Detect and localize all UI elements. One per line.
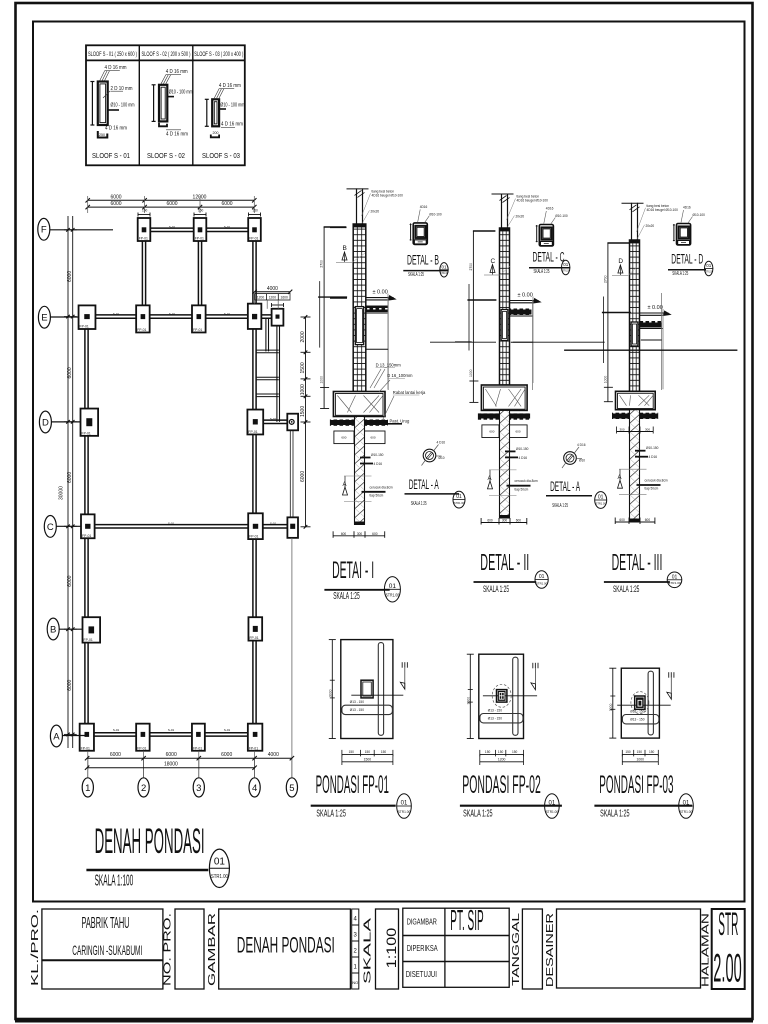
svg-text:DESAINER: DESAINER (545, 913, 556, 987)
svg-text:01: 01 (563, 262, 569, 267)
pondasi plan PONDASI FP-03 (612, 668, 614, 738)
svg-text:STR1.00: STR1.00 (546, 810, 558, 814)
svg-text:FP-01: FP-01 (249, 636, 258, 640)
svg-text:1:100: 1:100 (383, 928, 399, 969)
svg-text:STR1.00: STR1.00 (386, 592, 400, 597)
svg-text:F: F (41, 225, 47, 236)
svg-text:D 13_150mm: D 13_150mm (376, 363, 402, 368)
page number box STR 2.00 (712, 909, 745, 989)
svg-text:A: A (488, 476, 492, 482)
svg-text:tiap 50cm: tiap 50cm (370, 494, 384, 498)
plan: horizontal beams (144, 227, 257, 229)
svg-text:Past. Urug: Past. Urug (390, 419, 410, 424)
svg-text:cerucuk dia.8cm: cerucuk dia.8cm (370, 485, 394, 489)
grid bubble F (38, 218, 50, 240)
svg-text:Ø10-100: Ø10-100 (555, 214, 568, 218)
svg-text:01: 01 (456, 494, 462, 500)
svg-text:SKALA 1:25: SKALA 1:25 (613, 584, 639, 595)
svg-text:1500: 1500 (300, 362, 306, 373)
top dimension chain (88, 199, 255, 201)
detail A circle symbol (564, 452, 577, 465)
svg-text:4D16: 4D16 (420, 205, 428, 209)
svg-text:600: 600 (487, 519, 493, 523)
svg-text:250: 250 (99, 133, 105, 137)
svg-text:S-01: S-01 (169, 225, 176, 229)
svg-text:FP-01: FP-01 (249, 535, 258, 539)
svg-text:20x20: 20x20 (516, 215, 525, 219)
svg-text:FP-01: FP-01 (80, 325, 89, 329)
grid bubble 5 (286, 778, 297, 797)
svg-text:4 D16: 4 D16 (649, 455, 658, 459)
svg-text:2.00: 2.00 (713, 947, 741, 991)
svg-text:600: 600 (619, 518, 625, 522)
svg-text:150: 150 (625, 750, 631, 754)
grid bubble 3 (193, 778, 204, 797)
svg-text:01: 01 (441, 264, 447, 269)
svg-text:150: 150 (485, 750, 491, 754)
column footing at (91.3,629.9) (83, 617, 101, 642)
sloof section sketch at 159,84.8 (159, 85, 167, 122)
column footing at (89.3,422.2) (81, 409, 99, 436)
svg-text:± 0.00: ± 0.00 (373, 290, 388, 296)
svg-text:S-01: S-01 (224, 728, 231, 732)
grid bubble 2 (138, 778, 149, 797)
svg-text:SKALA: SKALA (363, 917, 374, 984)
svg-text:1000: 1000 (320, 376, 324, 384)
svg-text:3000: 3000 (466, 697, 470, 705)
column footing at (292.7,422) (287, 414, 298, 431)
svg-text:6000: 6000 (166, 201, 177, 207)
svg-text:4 D16: 4 D16 (374, 462, 383, 466)
svg-text:2000: 2000 (300, 331, 306, 342)
svg-text:S-01: S-01 (224, 312, 231, 316)
svg-text:600: 600 (372, 532, 378, 536)
column footing at (144.0,229.5) (138, 218, 151, 241)
detail section at x=359.5 (356, 188, 358, 224)
svg-text:6000: 6000 (67, 679, 73, 690)
pondasi plan PONDASI FP-02 (469, 654, 471, 738)
svg-text:6000: 6000 (67, 271, 73, 282)
svg-text:FP-01: FP-01 (82, 534, 91, 538)
svg-text:STR1.00: STR1.00 (705, 269, 713, 273)
svg-text:SLOOF S - 02: SLOOF S - 02 (147, 153, 185, 160)
svg-text:PONDASI FP-03: PONDASI FP-03 (599, 771, 673, 799)
svg-text:01: 01 (598, 495, 604, 501)
grid bubble C (44, 516, 56, 538)
svg-text:C: C (491, 258, 496, 265)
svg-text:2700: 2700 (320, 260, 324, 268)
svg-text:150: 150 (198, 209, 204, 213)
inner border frame (33, 22, 745, 902)
svg-text:01: 01 (683, 801, 690, 807)
column footing at (142.9,737.2) (136, 724, 150, 751)
sloof detail table (86, 45, 245, 165)
svg-text:PONDASI FP-02: PONDASI FP-02 (462, 771, 541, 799)
svg-text:1000: 1000 (603, 376, 607, 384)
svg-text:600: 600 (371, 436, 376, 440)
svg-text:600: 600 (516, 519, 522, 523)
svg-text:4 D 16 mm: 4 D 16 mm (221, 121, 243, 127)
svg-text:30000: 30000 (59, 486, 65, 500)
svg-text:4 D 16 mm: 4 D 16 mm (219, 83, 241, 89)
svg-text:150: 150 (253, 209, 259, 213)
svg-text:1: 1 (85, 783, 90, 794)
detail section at x=634.5 (631, 203, 633, 240)
svg-text:1000: 1000 (637, 758, 645, 762)
svg-text:4 D16: 4 D16 (519, 456, 528, 460)
column footing at (254.6,316.3) (248, 304, 262, 329)
svg-text:D: D (618, 258, 623, 265)
column footing at (200.0,229.5) (194, 218, 207, 241)
svg-text:FP-01: FP-01 (81, 746, 90, 750)
svg-text:STR1.00: STR1.00 (440, 271, 448, 275)
svg-text:STR: STR (718, 906, 738, 942)
svg-text:5: 5 (289, 783, 294, 794)
svg-text:DETAI - I: DETAI - I (332, 557, 374, 584)
long reference lines (430, 341, 496, 343)
svg-text:tiap 50cm: tiap 50cm (645, 487, 659, 491)
svg-text:CARINGIN -SUKABUMI: CARINGIN -SUKABUMI (72, 943, 142, 958)
column footing at (255.5,526.2) (248, 513, 263, 539)
column footing at (142.9,318.9) (136, 305, 150, 332)
svg-text:FP-01: FP-01 (193, 746, 202, 750)
svg-text:SKALA 1:25: SKALA 1:25 (600, 807, 630, 819)
svg-text:Ø10-150: Ø10-150 (646, 446, 659, 450)
svg-text:1600: 1600 (281, 296, 289, 300)
svg-text:STR1.00: STR1.00 (668, 581, 681, 585)
svg-text:300: 300 (502, 519, 508, 523)
svg-text:S-01: S-01 (113, 728, 120, 732)
svg-text:C: C (47, 522, 54, 533)
svg-text:3000: 3000 (609, 703, 613, 711)
column footing at (87.8,526.3) (81, 514, 95, 538)
bottom dimension chains (87, 757, 292, 759)
svg-text:S-01: S-01 (270, 417, 277, 421)
svg-text:4 D16: 4 D16 (437, 441, 446, 445)
svg-text:1500: 1500 (300, 406, 306, 417)
svg-text:600: 600 (341, 436, 346, 440)
svg-text:FP-01: FP-01 (193, 328, 202, 332)
svg-text:DETAL - D: DETAL - D (671, 252, 703, 267)
svg-text:Ø10-150: Ø10-150 (371, 453, 384, 457)
column footing at (86.8,737.2) (80, 724, 94, 751)
svg-text:20x20: 20x20 (646, 224, 655, 228)
svg-text:4D16: 4D16 (546, 207, 554, 211)
svg-text:GAMBAR: GAMBAR (207, 913, 218, 986)
svg-text:Ø13 - 150: Ø13 - 150 (488, 717, 502, 721)
svg-text:150: 150 (498, 750, 504, 754)
column footing at (198.4,737.2) (192, 724, 205, 751)
svg-text:01: 01 (706, 263, 712, 268)
svg-text:SKALA 1:25: SKALA 1:25 (534, 269, 550, 275)
svg-text:1200: 1200 (269, 296, 277, 300)
svg-text:Ø10-100: Ø10-100 (693, 213, 706, 217)
grid bubble 4 (249, 778, 260, 797)
svg-text:DIPERIKSA: DIPERIKSA (407, 944, 438, 953)
svg-text:01: 01 (401, 801, 408, 807)
svg-text:SLOOF S - 01 ( 250 x 600 ): SLOOF S - 01 ( 250 x 600 ) (88, 52, 137, 58)
svg-text:A: A (53, 731, 60, 742)
column footing at (254.5,229.5) (248, 218, 261, 241)
svg-text:DETAL - A: DETAL - A (550, 479, 580, 494)
svg-text:DISETUJUI: DISETUJUI (406, 970, 437, 979)
top-right 4000 dimension (255, 291, 291, 293)
svg-text:SKALA 1:25: SKALA 1:25 (411, 501, 427, 507)
project name box (42, 909, 163, 989)
svg-text:DETAL - III: DETAL - III (612, 549, 663, 575)
svg-text:S-01: S-01 (224, 225, 231, 229)
svg-text:4000: 4000 (267, 286, 278, 292)
grid bubble B (47, 618, 59, 640)
pondasi plan PONDASI FP-01 (331, 640, 333, 739)
svg-text:DENAH PONDASI: DENAH PONDASI (95, 822, 205, 861)
svg-text:1200: 1200 (498, 758, 506, 762)
svg-text:FP-01: FP-01 (137, 746, 146, 750)
svg-text:18000: 18000 (164, 762, 178, 768)
column footing at (255.3,422) (247, 410, 263, 435)
grid bubble E (38, 306, 50, 328)
svg-text:6000: 6000 (67, 367, 73, 378)
detail section at x=504.5 (501, 194, 503, 229)
svg-text:SKALA 1:25: SKALA 1:25 (463, 807, 493, 819)
svg-text:FP-01: FP-01 (139, 237, 148, 241)
right dimension chain (305, 317, 307, 527)
svg-text:4D16: 4D16 (683, 206, 691, 210)
svg-text:4000: 4000 (268, 752, 279, 758)
svg-text:1500: 1500 (364, 758, 372, 762)
svg-text:150: 150 (365, 750, 371, 754)
svg-text:FP-01: FP-01 (249, 237, 258, 241)
svg-text:6000: 6000 (67, 575, 73, 586)
svg-text:01: 01 (214, 857, 226, 868)
svg-text:600: 600 (341, 532, 347, 536)
svg-text:Ø10: Ø10 (439, 456, 445, 460)
svg-text:01: 01 (672, 574, 678, 580)
mini detail icon DETAL - B (413, 223, 427, 245)
svg-text:12000: 12000 (193, 194, 207, 200)
detail A circle symbol (423, 449, 436, 462)
desainer box (557, 909, 701, 988)
column footing at (255.1,737.2) (248, 724, 263, 751)
svg-text:FP-01: FP-01 (82, 431, 91, 435)
svg-text:20x20: 20x20 (371, 209, 380, 213)
svg-text:D: D (42, 417, 49, 428)
svg-text:6000: 6000 (166, 752, 177, 758)
svg-text:HALAMAN: HALAMAN (701, 913, 712, 987)
svg-text:200: 200 (213, 131, 219, 135)
svg-text:STR1.00: STR1.00 (562, 268, 570, 272)
svg-text:4 D 16 mm: 4 D 16 mm (166, 69, 188, 75)
left dimension chains (67, 216, 69, 748)
svg-text:SLOOF S - 02 ( 200 x 500 ): SLOOF S - 02 ( 200 x 500 ) (142, 52, 191, 58)
svg-text:DIGAMBAR: DIGAMBAR (407, 918, 437, 927)
svg-text:DETAL - B: DETAL - B (407, 252, 439, 267)
svg-text:DENAH PONDASI: DENAH PONDASI (237, 932, 335, 957)
svg-text:600: 600 (489, 429, 494, 433)
plan: axis beams (84, 317, 86, 737)
svg-text:NO: NO (352, 980, 358, 985)
svg-text:300: 300 (645, 427, 650, 431)
svg-text:4: 4 (252, 783, 257, 794)
svg-text:STR1.00: STR1.00 (211, 874, 228, 880)
svg-text:D 16_100mm: D 16_100mm (387, 373, 413, 378)
svg-text:STR1.00: STR1.00 (536, 581, 548, 585)
svg-text:NO. PRO.: NO. PRO. (163, 913, 174, 986)
svg-text:600: 600 (516, 429, 521, 433)
svg-text:SLOOF S - 01: SLOOF S - 01 (92, 153, 130, 160)
svg-text:01: 01 (389, 583, 397, 590)
sloof section sketch at 212.2,99.3 (212, 99, 219, 126)
svg-text:E: E (41, 313, 47, 324)
svg-text:4 D 16 mm: 4 D 16 mm (166, 131, 188, 137)
svg-text:6000: 6000 (110, 752, 121, 758)
svg-text:PABRIK TAHU: PABRIK TAHU (82, 915, 130, 932)
mini detail icon DETAL - D (677, 224, 691, 246)
column footing at (198.8,318.9) (192, 305, 206, 332)
svg-text:SKALA 1:25: SKALA 1:25 (333, 591, 360, 602)
svg-text:STR1.00: STR1.00 (454, 501, 464, 505)
svg-text:4 D 16 mm: 4 D 16 mm (105, 126, 127, 132)
svg-text:6000: 6000 (110, 201, 121, 207)
svg-text:Ø13 - 150: Ø13 - 150 (350, 700, 364, 704)
svg-text:PT. SIP: PT. SIP (450, 905, 483, 937)
svg-text:150: 150 (649, 750, 655, 754)
svg-text:A: A (343, 482, 347, 488)
svg-text:2700: 2700 (603, 275, 607, 283)
svg-text:150: 150 (349, 750, 355, 754)
svg-text:STR1.00: STR1.00 (680, 810, 692, 814)
svg-text:DETAL - A: DETAL - A (409, 477, 439, 492)
svg-text:6000: 6000 (67, 472, 73, 483)
svg-text:6000: 6000 (221, 752, 232, 758)
svg-text:S-01: S-01 (169, 312, 176, 316)
svg-text:cerucuk dia.8cm: cerucuk dia.8cm (645, 479, 669, 483)
svg-text:SKALA 1:25: SKALA 1:25 (552, 503, 568, 509)
svg-text:6000: 6000 (110, 194, 121, 200)
svg-text:TANGGAL: TANGGAL (511, 912, 522, 986)
svg-text:Ø10 - 100 mm: Ø10 - 100 mm (169, 90, 193, 96)
svg-text:SLOOF S - 03 ( 200 x 400 ): SLOOF S - 03 ( 200 x 400 ) (194, 52, 243, 58)
svg-text:Ø13 - 150: Ø13 - 150 (350, 708, 364, 712)
svg-text:FP-01: FP-01 (249, 746, 258, 750)
svg-text:01: 01 (539, 574, 545, 580)
revision number boxes (352, 909, 359, 989)
svg-text:4D16 beugel Ø10-100: 4D16 beugel Ø10-100 (517, 199, 549, 203)
svg-text:S-01: S-01 (168, 728, 175, 732)
svg-text:01: 01 (549, 801, 556, 807)
svg-text:STR1.00: STR1.00 (596, 502, 606, 506)
ladder rungs between axis4 and rail (257, 349, 279, 351)
svg-text:2700: 2700 (469, 263, 473, 271)
svg-text:6000: 6000 (221, 201, 232, 207)
svg-text:SKALA 1:25: SKALA 1:25 (316, 807, 346, 819)
column footing at (292.7,527.6) (287, 517, 298, 538)
svg-text:300: 300 (632, 518, 638, 522)
svg-text:2: 2 (141, 783, 146, 794)
grid bubble 1 (82, 778, 93, 797)
svg-text:Ø10: Ø10 (579, 459, 585, 463)
svg-text:SKALA 1:25: SKALA 1:25 (483, 584, 509, 595)
drawing title box (219, 909, 351, 989)
svg-text:S-01: S-01 (113, 312, 120, 316)
svg-text:1200: 1200 (257, 296, 265, 300)
svg-text:cerucuk dia.8cm: cerucuk dia.8cm (515, 479, 539, 483)
column footing at (277.5,317.2) (272, 309, 284, 326)
svg-text:KL./PRO.: KL./PRO. (30, 909, 41, 986)
grid bubble A (50, 725, 62, 747)
svg-text:4D16 beugel Ø10-100: 4D16 beugel Ø10-100 (372, 193, 404, 197)
svg-text:SKALA 1:25: SKALA 1:25 (672, 271, 688, 277)
svg-text:STR1.00: STR1.00 (398, 810, 410, 814)
svg-text:FP-01: FP-01 (195, 237, 204, 241)
svg-text:4 D 16 mm: 4 D 16 mm (105, 65, 127, 71)
svg-text:B: B (343, 245, 347, 252)
svg-text:± 0.00: ± 0.00 (648, 305, 663, 311)
svg-text:S-01: S-01 (168, 522, 175, 526)
svg-text:Rabat lantai kerja: Rabat lantai kerja (393, 390, 426, 395)
mini detail icon DETAL - C (539, 225, 553, 247)
svg-text:3000: 3000 (328, 689, 332, 697)
tanggal box (522, 909, 542, 989)
svg-text:150: 150 (637, 750, 643, 754)
svg-text:Ø10-100: Ø10-100 (429, 212, 442, 216)
svg-text:FP-01: FP-01 (248, 430, 257, 434)
svg-text:SKALA 1:25: SKALA 1:25 (408, 272, 424, 278)
svg-text:300: 300 (619, 427, 624, 431)
svg-text:3: 3 (196, 783, 201, 794)
sloof section sketch at 97.8,81.5 (98, 82, 108, 126)
svg-text:DETAL - C: DETAL - C (533, 250, 565, 265)
svg-text:1000: 1000 (469, 369, 473, 377)
bubble leader lines (50, 229, 113, 231)
svg-text:DETAL - II: DETAL - II (480, 549, 529, 575)
svg-text:Ø10 - 100 mm: Ø10 - 100 mm (111, 103, 135, 109)
svg-text:Ø10 - 100 mm: Ø10 - 100 mm (220, 103, 244, 109)
svg-text:150: 150 (512, 750, 518, 754)
svg-text:300: 300 (357, 532, 363, 536)
svg-text:4 D16: 4 D16 (577, 443, 586, 447)
column footing at (87.0,317.2) (79, 305, 96, 329)
svg-text:FP-01: FP-01 (84, 638, 93, 642)
svg-text:1000: 1000 (300, 384, 306, 395)
svg-text:SLOOF S - 03: SLOOF S - 03 (202, 153, 240, 160)
svg-text:± 0.00: ± 0.00 (518, 293, 533, 299)
svg-text:tiap 50cm: tiap 50cm (515, 487, 529, 491)
svg-text:PONDASI FP-01: PONDASI FP-01 (316, 771, 389, 799)
grid bubble D (39, 411, 51, 433)
extension lines from A row columns to bottom dim (87, 751, 89, 770)
svg-text:150: 150 (381, 750, 387, 754)
svg-text:4D16 beugel Ø10-100: 4D16 beugel Ø10-100 (647, 208, 679, 212)
column footing at (255.3,628.9) (248, 617, 262, 640)
svg-text:SKALA 1:100: SKALA 1:100 (95, 873, 134, 890)
svg-text:Ø10-150: Ø10-150 (516, 447, 529, 451)
svg-text:6000: 6000 (300, 471, 306, 482)
svg-text:Ø13 - 150: Ø13 - 150 (488, 709, 502, 713)
svg-text:A: A (618, 475, 622, 481)
svg-text:S-01: S-01 (270, 522, 277, 526)
scale box 1:100 (376, 909, 399, 989)
svg-text:600: 600 (645, 518, 651, 522)
svg-text:FP-01: FP-01 (137, 328, 146, 332)
digambar/diperiksa/disetujui table (403, 908, 509, 987)
svg-text:B: B (50, 624, 56, 635)
svg-text:Ø13 - 150: Ø13 - 150 (630, 718, 644, 722)
